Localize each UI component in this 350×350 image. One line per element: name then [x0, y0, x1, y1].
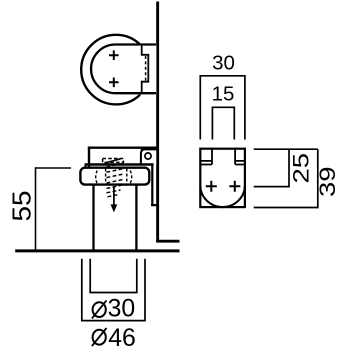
dim 55 extension line: [35, 167, 71, 169]
post cylinder: [92, 185, 94, 250]
svg-text:25: 25: [289, 153, 314, 184]
floor line: [15, 249, 179, 252]
wall bracket step: [142, 45, 149, 93]
wall foot line: [156, 240, 179, 243]
svg-text:15: 15: [212, 82, 235, 105]
flange (rounded cap): [80, 168, 149, 185]
dim 39 bracket: [254, 149, 318, 207]
front screw cross right: [229, 181, 240, 192]
arm left tab: [85, 164, 89, 167]
pivot pin circle: [145, 153, 151, 159]
dim text d30: [92, 295, 135, 322]
left mounting slot: [200, 149, 212, 165]
dim bracket d46: [82, 259, 145, 321]
svg-text:30: 30: [212, 51, 235, 74]
bracket hidden edge (dashed): [145, 56, 147, 81]
screw hole hidden edges: [105, 169, 107, 185]
right mounting slot: [235, 149, 245, 165]
svg-text:46: 46: [108, 325, 136, 350]
wall line: [156, 2, 159, 243]
screw cross top: [109, 50, 119, 60]
wall plate edge: [151, 164, 158, 205]
dim 25 bracket: [254, 149, 289, 186]
screw axis arrow: [113, 186, 115, 206]
thread dashes right: [130, 171, 132, 184]
top extension line right: [254, 148, 318, 150]
dim text d46: [92, 325, 136, 350]
svg-text:55: 55: [9, 191, 37, 222]
svg-text:39: 39: [315, 166, 340, 197]
white mask over circle right slice: [141, 43, 157, 96]
thread dashes left: [96, 171, 98, 184]
keeper plate stadium: [91, 45, 156, 94]
arm-block diagonal: [140, 148, 143, 151]
holder arm: [85, 148, 157, 168]
front screw cross left: [206, 181, 217, 192]
ring outer circle: [81, 35, 151, 105]
dim bracket 30: [200, 76, 245, 140]
spring coil (dashed hatches): [107, 163, 123, 196]
screw cross bottom: [109, 78, 119, 88]
dim 55 line: [35, 167, 37, 250]
dim bracket d30: [90, 259, 137, 293]
svg-text:30: 30: [108, 295, 136, 322]
screw head hidden (dashed): [103, 159, 124, 163]
dim bracket 15: [212, 107, 234, 139]
front bottom arc: [200, 185, 245, 207]
pivot block: [141, 149, 158, 164]
front view body: [200, 149, 245, 207]
screw slot diagonal: [105, 159, 121, 163]
